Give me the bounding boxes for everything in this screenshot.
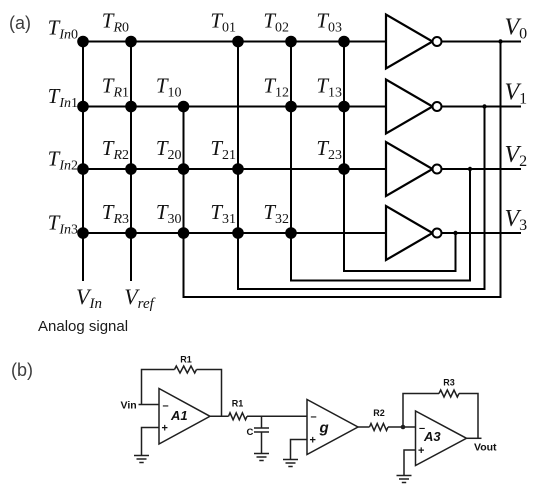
transistor T_30 (156, 200, 189, 239)
svg-text:–: – (311, 411, 317, 423)
transistor T_In3 (48, 211, 89, 239)
ground (g + input) (283, 460, 298, 467)
wire A3 non-inverting input to ground (404, 450, 416, 476)
svg-text:+: + (310, 435, 316, 447)
transistor T_In0 (48, 16, 89, 48)
resistor R1 (series) (229, 413, 248, 420)
ground (A3 + input) (397, 476, 412, 483)
svg-text:R1: R1 (232, 399, 244, 409)
wire output V3 (442, 232, 522, 234)
svg-text:(b): (b) (11, 360, 33, 380)
svg-text:+: + (162, 423, 168, 435)
wire row 1 (T_In1 row line) (83, 106, 386, 108)
transistor T_21 (210, 136, 243, 175)
transistor T_R1 (102, 74, 137, 113)
wire R1 to g inverting input (247, 415, 307, 417)
transistor T_12 (263, 74, 296, 113)
ground (A1 + input) (134, 456, 149, 463)
svg-text:g: g (319, 420, 329, 437)
transistor T_23 (316, 136, 349, 175)
transistor T_03 (316, 9, 349, 48)
transistor T_02 (263, 9, 296, 48)
wire feedback column 2 (from inverter V2 output wrap-around) (291, 42, 470, 281)
inverter U2 (386, 142, 442, 196)
wire column V_In (82, 42, 84, 282)
op-amp A3 (416, 411, 467, 466)
svg-text:R1: R1 (180, 355, 192, 365)
svg-text:Analog signal: Analog signal (38, 318, 128, 335)
wire feedback column 0 (from inverter V0 output wrap-around) (184, 42, 501, 298)
svg-text:R2: R2 (373, 408, 385, 418)
resistor R1 (A1 feedback) (175, 366, 197, 373)
wire A3 feedback loop (403, 394, 478, 439)
transistor T_01 (210, 9, 243, 48)
wire feedback column 1 (from inverter V1 output wrap-around) (238, 42, 485, 290)
svg-text:Vout: Vout (474, 442, 497, 454)
svg-text:Vin: Vin (121, 400, 137, 412)
svg-text:A1: A1 (170, 408, 188, 423)
svg-text:–: – (163, 400, 169, 412)
node V3 feedback junction (453, 231, 457, 235)
svg-text:+: + (418, 445, 424, 457)
wire row 3 (T_In3 row line) (83, 232, 386, 234)
capacitor C (254, 416, 269, 453)
wire Vin to A1 inverting input (139, 404, 160, 406)
wire R2 to A3 inverting input (388, 426, 416, 428)
wire row 2 (T_In2 row line) (83, 168, 386, 170)
svg-text:R3: R3 (443, 378, 455, 388)
wire column V_ref (130, 42, 132, 282)
transistor T_R3 (102, 200, 137, 239)
node V1 feedback junction (482, 104, 486, 108)
resistor R2 (370, 424, 389, 431)
wire output V1 (442, 106, 522, 108)
wire output V2 (442, 168, 522, 170)
op-amp A1 (159, 389, 210, 445)
node A3 input junction (401, 425, 406, 430)
ground (capacitor C) (254, 454, 269, 461)
wire A3 output (467, 437, 482, 439)
inverter U1 (386, 80, 442, 134)
wire row 0 (T_In0 row line) (83, 41, 386, 43)
wire feedback column 3 (from inverter V3 output wrap-around) (344, 42, 456, 272)
wire A1 non-inverting input to ground (142, 428, 160, 456)
inverter U3 (386, 206, 442, 260)
inverter U0 (386, 15, 442, 69)
transistor T_32 (263, 200, 296, 239)
svg-text:C: C (247, 427, 254, 438)
svg-text:(a): (a) (9, 13, 31, 33)
wire g non-inverting input to ground (291, 440, 308, 460)
transistor T_31 (210, 200, 243, 239)
svg-text:A3: A3 (423, 429, 441, 444)
transistor T_20 (156, 136, 189, 175)
wire A1 feedback loop (142, 370, 222, 417)
transistor T_13 (316, 74, 349, 113)
transistor T_R0 (102, 9, 137, 48)
wire g output (358, 426, 370, 428)
node V2 feedback junction (468, 167, 472, 171)
transistor T_R2 (102, 136, 137, 175)
wire output V0 (442, 41, 522, 43)
resistor R3 (439, 390, 459, 397)
transistor T_10 (156, 74, 189, 113)
transistor T_In2 (48, 147, 89, 175)
op-amp g (307, 400, 358, 455)
transistor T_In1 (48, 84, 89, 112)
node V0 feedback junction (498, 39, 502, 43)
wire A1 output (210, 415, 229, 417)
